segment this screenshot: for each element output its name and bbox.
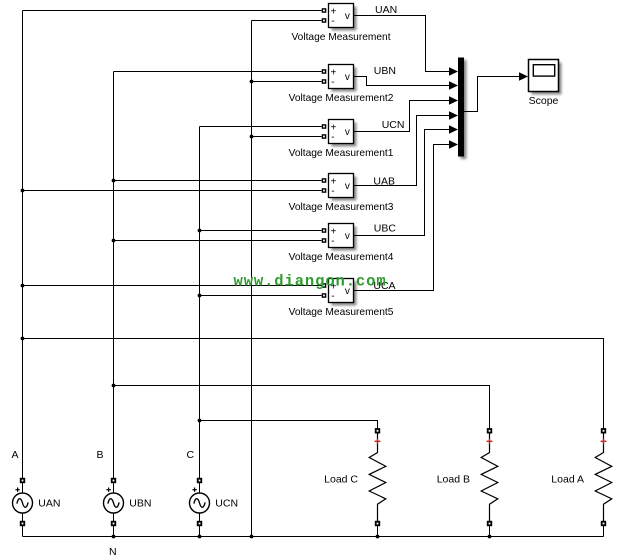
wire: mux output to Scope — [464, 77, 519, 112]
junction C/VM5- — [198, 294, 202, 298]
svg-text:v: v — [345, 181, 350, 192]
arrowhead into mux input 5 — [449, 125, 458, 133]
AC voltage source UAN — [13, 478, 33, 537]
svg-text:UAB: UAB — [373, 175, 395, 187]
junction N/VM2- — [250, 80, 254, 84]
junction C/VM4+ — [198, 229, 202, 233]
pin - (input 2) of Voltage Measurement5 — [322, 293, 327, 298]
arrowhead into mux input 6 — [449, 140, 458, 148]
voltage measurement block U3 "Voltage Measurement1" — [329, 120, 357, 147]
junction N/LoadC — [376, 535, 380, 539]
mux M1 (signal combiner bar) — [458, 58, 467, 160]
junction A/VM5+ — [21, 284, 25, 288]
svg-text:www.diangon.com: www.diangon.com — [234, 273, 387, 291]
AC voltage source UBN — [104, 478, 124, 537]
wire: neutral N vertical bus x=251.5 — [251, 21, 253, 537]
voltage measurement block U4 "Voltage Measurement3" — [329, 174, 357, 201]
svg-text:-: - — [331, 132, 334, 143]
svg-text:-: - — [331, 77, 334, 88]
pin + (input 1) of Voltage Measurement — [322, 8, 327, 13]
svg-text:Voltage Measurement1: Voltage Measurement1 — [289, 148, 394, 159]
wire: phase C vertical bus x=199.5 — [199, 127, 201, 479]
svg-text:UBC: UBC — [374, 223, 397, 235]
pin - (input 2) of Voltage Measurement2 — [322, 79, 327, 84]
pin - (input 2) of Voltage Measurement1 — [322, 134, 327, 139]
wire: VM5 + from A, y=285.5 — [23, 285, 322, 287]
voltage measurement block U5 "Voltage Measurement4" — [329, 224, 357, 251]
junction N/UBN — [112, 535, 116, 539]
svg-text:UBN: UBN — [129, 498, 151, 510]
wire: VM1 + from C, y=126.5 — [200, 126, 322, 128]
svg-text:C: C — [187, 449, 195, 461]
svg-text:UAN: UAN — [38, 498, 60, 510]
arrowhead into mux input 3 — [449, 96, 458, 104]
svg-text:UAN: UAN — [375, 4, 397, 16]
pin + (input 1) of Voltage Measurement2 — [322, 69, 327, 74]
wire: VM4 - from B, y=240.5 — [114, 240, 322, 242]
svg-text:-: - — [331, 16, 334, 27]
pin + (input 1) of Voltage Measurement1 — [322, 124, 327, 129]
wire: phase C to Load C feeder — [200, 421, 378, 429]
junction N/Nvert — [250, 535, 254, 539]
wire: VM3 + from B, y=180.5 — [114, 180, 322, 182]
junction C/LoadC — [198, 419, 202, 423]
pin + (input 1) of Voltage Measurement5 — [322, 283, 327, 288]
wire: neutral N bottom bus — [23, 536, 604, 538]
AC voltage source UCN — [190, 478, 210, 537]
scope block "Scope" — [529, 60, 562, 95]
wire: UCA output to mux input 6 — [354, 145, 450, 291]
svg-text:-: - — [331, 236, 334, 247]
arrowhead into mux input 1 — [449, 67, 458, 75]
svg-text:v: v — [345, 72, 350, 83]
svg-text:Voltage Measurement4: Voltage Measurement4 — [289, 252, 394, 263]
svg-text:Load B: Load B — [437, 473, 470, 485]
arrowhead into mux input 2 — [449, 81, 458, 89]
svg-text:UCN: UCN — [215, 498, 238, 510]
wire: VM - from N, y=20.5 — [252, 20, 322, 22]
wire: VM5 - from C, y=295.5 — [200, 295, 322, 297]
wire: phase A to Load A (top feeder) — [23, 339, 604, 429]
svg-text:Voltage Measurement: Voltage Measurement — [291, 32, 390, 43]
wire: VM3 - from A, y=190.5 — [23, 190, 322, 192]
junction N/UCN — [198, 535, 202, 539]
resistor load "Load A" — [595, 428, 612, 536]
wire: VM1 - from N, y=136.5 — [252, 136, 322, 138]
wire: UBC output to mux input 5 — [354, 130, 450, 236]
wire: UBN output to mux input 2 — [354, 77, 450, 86]
wire: UAB output to mux input 4 — [354, 116, 450, 186]
svg-text:Voltage Measurement3: Voltage Measurement3 — [289, 202, 394, 213]
svg-text:A: A — [12, 449, 19, 461]
svg-text:-: - — [331, 186, 334, 197]
arrowhead into Scope input — [519, 72, 528, 80]
junction N/VM1- — [250, 135, 254, 139]
wire: UCN output to mux input 3 — [354, 101, 450, 132]
pin - (input 2) of Voltage Measurement3 — [322, 188, 327, 193]
pin + (input 1) of Voltage Measurement3 — [322, 178, 327, 183]
resistor load "Load B" — [481, 428, 498, 536]
svg-text:UBN: UBN — [374, 65, 396, 77]
wire: phase A vertical bus x=22.5 — [22, 11, 24, 479]
junction B/LoadB — [112, 384, 116, 388]
wire: VM + from A, y=10.5 — [23, 10, 322, 12]
pin + (input 1) of Voltage Measurement4 — [322, 228, 327, 233]
svg-text:Voltage Measurement2: Voltage Measurement2 — [289, 93, 394, 104]
svg-text:B: B — [97, 449, 104, 461]
svg-text:N: N — [109, 546, 117, 558]
arrowhead into mux input 4 — [449, 111, 458, 119]
svg-text:v: v — [345, 11, 350, 22]
wire: phase B vertical bus x=113.5 — [113, 72, 115, 479]
svg-text:v: v — [345, 231, 350, 242]
pin - (input 2) of Voltage Measurement4 — [322, 238, 327, 243]
svg-text:v: v — [345, 127, 350, 138]
junction N/LoadB — [488, 535, 492, 539]
wire: UAN output to mux input 1 — [354, 16, 450, 72]
svg-text:Load C: Load C — [324, 473, 358, 485]
svg-text:Scope: Scope — [529, 95, 559, 107]
svg-text:Voltage Measurement5: Voltage Measurement5 — [289, 307, 394, 318]
svg-text:-: - — [331, 291, 334, 302]
wire: VM4 + from C, y=230.5 — [200, 230, 322, 232]
resistor load "Load C" — [369, 428, 386, 536]
voltage measurement block U6 "Voltage Measurement5" — [329, 279, 357, 306]
svg-text:Load A: Load A — [551, 473, 584, 485]
wire: VM2 - from N, y=81.5 — [252, 81, 322, 83]
voltage measurement block U2 "Voltage Measurement2" — [329, 65, 357, 92]
junction B/VM3+ — [112, 179, 116, 183]
junction A/LoadA — [21, 337, 25, 341]
voltage measurement block U1 "Voltage Measurement" — [329, 4, 357, 31]
junction B/VM4- — [112, 239, 116, 243]
junction A/VM3- — [21, 189, 25, 193]
wire: phase B to Load B feeder — [114, 386, 490, 429]
wire: VM2 + from B, y=71.5 — [114, 71, 322, 73]
pin - (input 2) of Voltage Measurement — [322, 18, 327, 23]
svg-text:UCN: UCN — [382, 119, 405, 131]
